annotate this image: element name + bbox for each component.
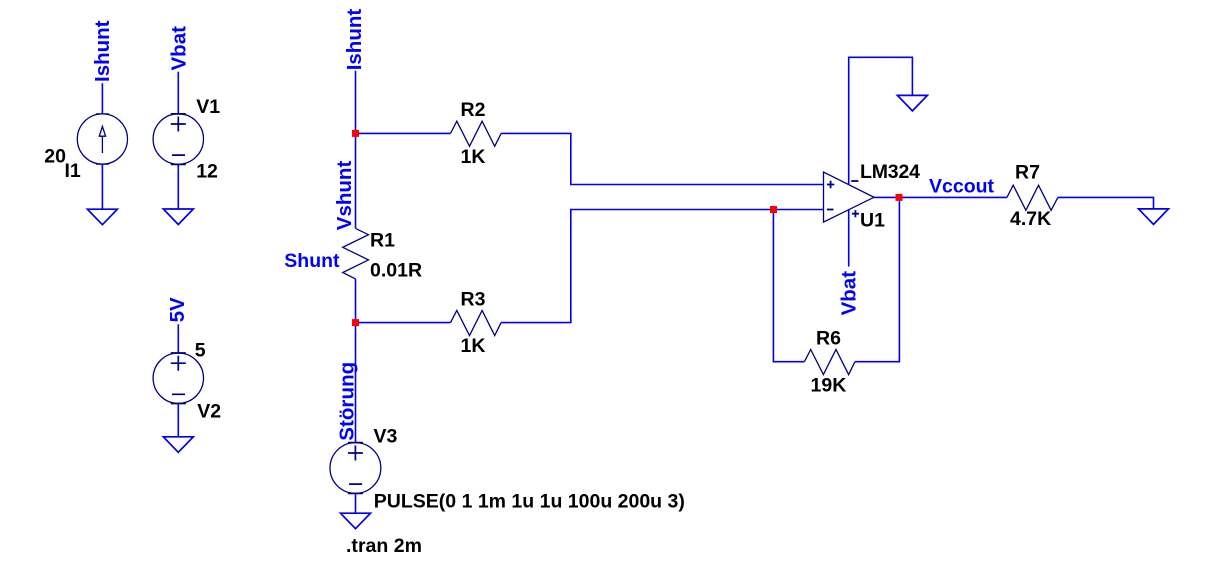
svg-text:5: 5: [195, 339, 206, 361]
svg-text:U1: U1: [860, 210, 885, 232]
svg-text:Shunt: Shunt: [284, 250, 340, 272]
svg-text:R2: R2: [461, 99, 486, 121]
svg-text:I1: I1: [65, 160, 81, 182]
svg-text:Ishunt: Ishunt: [91, 20, 114, 82]
svg-text:4.7K: 4.7K: [1010, 208, 1051, 230]
svg-text:20: 20: [44, 146, 66, 168]
svg-text:V2: V2: [197, 400, 221, 422]
svg-text:V3: V3: [374, 425, 398, 447]
svg-text:5V: 5V: [166, 297, 189, 322]
svg-text:Vbat: Vbat: [168, 26, 191, 71]
svg-text:R6: R6: [816, 327, 841, 349]
svg-text:LM324: LM324: [860, 161, 920, 183]
svg-text:R3: R3: [461, 289, 486, 311]
svg-text:1K: 1K: [461, 146, 486, 168]
svg-text:Ishunt: Ishunt: [343, 9, 366, 71]
svg-text:V1: V1: [196, 96, 220, 118]
svg-text:19K: 19K: [811, 375, 847, 397]
svg-text:.tran 2m: .tran 2m: [346, 535, 422, 557]
svg-text:1K: 1K: [461, 335, 486, 357]
svg-text:12: 12: [196, 160, 218, 182]
svg-text:R1: R1: [370, 229, 395, 251]
svg-text:Vccout: Vccout: [929, 176, 995, 198]
svg-text:0.01R: 0.01R: [370, 260, 422, 282]
svg-text:Vshunt: Vshunt: [333, 161, 356, 231]
svg-text:Störung: Störung: [336, 362, 359, 441]
svg-text:PULSE(0 1 1m 1u 1u 100u 200u 3: PULSE(0 1 1m 1u 1u 100u 200u 3): [374, 491, 685, 513]
svg-text:R7: R7: [1015, 162, 1040, 184]
svg-text:Vbat: Vbat: [837, 271, 860, 316]
